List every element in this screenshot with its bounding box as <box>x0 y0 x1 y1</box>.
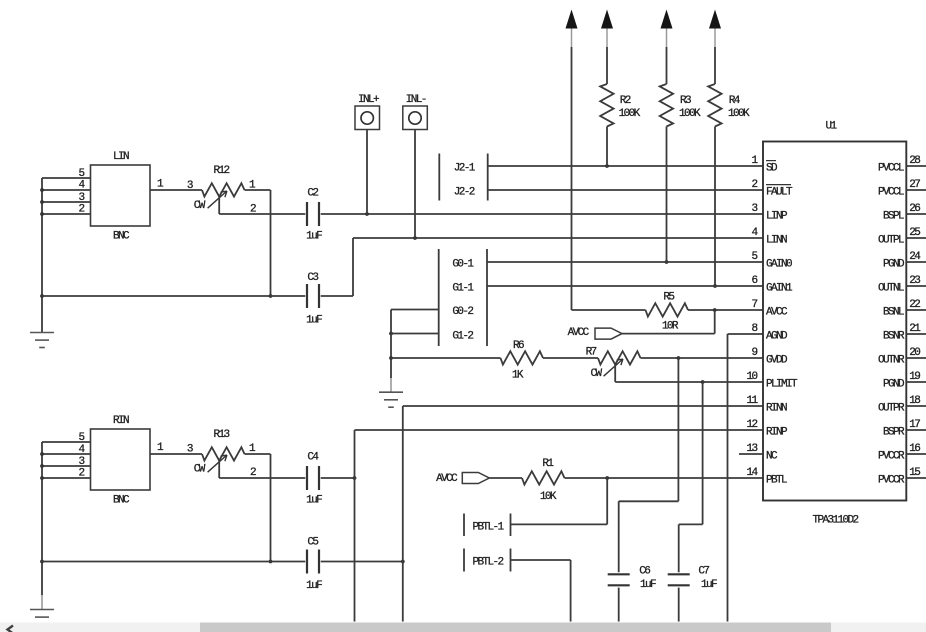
svg-text:R3: R3 <box>680 95 691 107</box>
scrollbar thumb <box>200 623 831 632</box>
svg-text:INL+: INL+ <box>358 94 379 106</box>
pin 7 AVCC <box>751 299 788 318</box>
pin 15 PVCCR <box>878 467 926 486</box>
potentiometer R12 <box>187 165 256 216</box>
svg-text:10R: 10R <box>662 321 679 333</box>
svg-text:BSNL: BSNL <box>883 307 904 319</box>
svg-text:R12: R12 <box>213 165 229 177</box>
resistor R2 100K <box>600 47 640 127</box>
power tag AVCC to pin7 <box>568 310 715 339</box>
svg-text:PBTL: PBTL <box>766 475 787 487</box>
wire R12 terminal1 to C3 row <box>245 190 273 298</box>
wire C7 to bottom edge <box>678 588 680 622</box>
svg-text:J2-2: J2-2 <box>454 187 475 199</box>
wire J2-1 to IC pin 1 SD <box>488 164 763 168</box>
pin 13 NC <box>739 443 778 462</box>
capacitor C4 <box>306 452 322 507</box>
svg-text:100K: 100K <box>728 108 750 120</box>
svg-text:AVCC: AVCC <box>436 473 458 485</box>
test point INL+ <box>355 94 380 130</box>
svg-text:12: 12 <box>746 419 757 431</box>
svg-text:R5: R5 <box>663 292 674 304</box>
pin 4 LINN <box>751 227 787 246</box>
wire GVDD net to C6 <box>619 358 679 572</box>
pin 17 BSPR <box>883 419 926 438</box>
svg-text:OUTPL: OUTPL <box>878 235 904 247</box>
connector G (gain select) <box>439 249 487 346</box>
wire PBTL-2 to bottom edge <box>511 560 571 622</box>
wire INL+ to LINP net <box>366 130 368 215</box>
svg-text:PVCCR: PVCCR <box>878 451 905 463</box>
svg-text:BSNR: BSNR <box>883 331 905 343</box>
connector J2 <box>439 154 487 201</box>
pin 27 PVCCL <box>878 179 926 198</box>
svg-text:PVCCL: PVCCL <box>878 187 904 199</box>
resistor R3 100K <box>660 47 701 127</box>
svg-text:BSPL: BSPL <box>883 211 904 223</box>
svg-text:1uF: 1uF <box>306 314 322 326</box>
pin 23 OUTNL <box>878 275 926 294</box>
wire LIN shield bus <box>40 178 44 332</box>
svg-text:C5: C5 <box>307 537 318 549</box>
svg-text:10K: 10K <box>540 491 557 503</box>
svg-text:OUTPR: OUTPR <box>878 403 905 415</box>
power port VCC arrow 2 <box>601 10 613 48</box>
wire R13 wiper to C4 <box>219 477 305 479</box>
svg-text:OUTNR: OUTNR <box>878 355 905 367</box>
wire C3 to IC pin 4 LINN <box>321 236 763 296</box>
ground RIN shield <box>30 610 54 625</box>
svg-text:PLIMIT: PLIMIT <box>766 379 798 391</box>
pin 11 RINN <box>746 395 787 414</box>
pin 25 OUTPL <box>878 227 926 246</box>
power tag AVCC to R1 <box>436 473 522 485</box>
wire RINN net to IC pin 11 <box>403 406 763 622</box>
svg-text:10: 10 <box>746 371 757 383</box>
svg-text:R2: R2 <box>620 95 631 107</box>
svg-text:TPA3110D2: TPA3110D2 <box>812 515 858 527</box>
pin 14 PBTL <box>746 467 787 486</box>
connector RIN (BNC jack) <box>78 415 150 507</box>
wire PLIMIT net to C7 <box>679 382 703 572</box>
capacitor C7 1uF <box>668 566 717 592</box>
wire VCC arrow1 to R5 row <box>571 47 573 310</box>
pin 5 GAIN0 <box>751 251 792 270</box>
power port VCC arrow 1 <box>566 10 578 48</box>
svg-text:PGND: PGND <box>883 379 905 391</box>
connector PBTL-2 <box>464 549 511 572</box>
wire shield bus to C3 <box>42 295 305 297</box>
ground bus near G header <box>389 310 393 393</box>
pin 10 PLIMIT <box>746 371 798 390</box>
svg-text:FAULT: FAULT <box>766 187 793 199</box>
wire R7 wiper to IC pin 10 PLIMIT <box>615 365 763 384</box>
svg-text:BNC: BNC <box>113 231 130 243</box>
test point INL- <box>403 94 428 130</box>
resistor R6 1K <box>391 340 543 381</box>
wire RIN pin stubs to shield bus <box>42 442 91 478</box>
potentiometer R13 <box>187 429 256 479</box>
svg-text:1uF: 1uF <box>306 495 322 507</box>
pin 1 SD <box>751 155 778 174</box>
svg-text:C2: C2 <box>307 188 318 200</box>
svg-text:100K: 100K <box>679 108 701 120</box>
wire R1 to IC pin 14 PBTL <box>565 476 764 480</box>
wire G1-2 to ground bus <box>389 332 439 336</box>
wire R12 wiper to C2 (LINP net) <box>219 213 305 215</box>
svg-text:1uF: 1uF <box>701 579 717 591</box>
wire C4 to RINP net <box>321 476 357 480</box>
svg-text:PGND: PGND <box>883 259 905 271</box>
pin 28 PVCCL <box>878 155 926 174</box>
svg-text:R6: R6 <box>513 340 524 352</box>
wire INL- to LINN net <box>414 130 416 239</box>
wire R7 to IC pin 9 GVDD <box>641 356 764 360</box>
wire C5 to RINN net <box>321 560 405 564</box>
pin 20 OUTNR <box>878 347 926 366</box>
wire RIN shield bus <box>40 442 44 610</box>
svg-text:PBTL-2: PBTL-2 <box>472 557 503 569</box>
svg-text:PBTL-1: PBTL-1 <box>472 521 504 533</box>
wire C2 to IC pin 3 LINP <box>321 212 763 216</box>
connector LIN (BNC jack) <box>78 151 150 243</box>
ground LIN shield <box>30 333 54 348</box>
op-amp IC U1 TPA3110D2 <box>739 121 926 527</box>
wire G1-1 to IC pin 6 GAIN1 <box>487 285 763 287</box>
svg-text:R7: R7 <box>586 347 597 359</box>
wire G0-2 to ground bus <box>391 309 439 311</box>
svg-text:1uF: 1uF <box>640 579 656 591</box>
resistor R4 100K <box>708 47 750 127</box>
svg-text:LIN: LIN <box>113 151 129 163</box>
capacitor C6 1uF <box>608 566 656 592</box>
wire J2-2 to IC pin 2 FAULT <box>488 189 763 191</box>
svg-text:J2-1: J2-1 <box>454 163 476 175</box>
wire R2 to SD net <box>606 127 608 167</box>
pin 12 RINP <box>746 419 788 438</box>
svg-text:G1-1: G1-1 <box>452 283 474 295</box>
svg-text:BNC: BNC <box>113 495 130 507</box>
wire shield bus to C5 <box>42 561 305 563</box>
wire C6 to bottom edge <box>618 588 620 622</box>
scrollbar left arrow <box>8 626 14 632</box>
svg-text:GAIN1: GAIN1 <box>766 283 793 295</box>
pin 24 PGND <box>883 251 926 270</box>
pin 9 GVDD <box>751 347 788 366</box>
wire IC pin 8 AGND down to bottom <box>728 334 764 622</box>
power port VCC arrow 4 <box>709 10 721 48</box>
resistor R5 10R <box>572 292 764 333</box>
svg-text:1uF: 1uF <box>306 231 322 243</box>
svg-text:C7: C7 <box>698 566 709 578</box>
pin 2 FAULT <box>751 179 793 198</box>
svg-text:C3: C3 <box>307 272 318 284</box>
svg-text:GAIN0: GAIN0 <box>766 259 792 271</box>
capacitor C5 <box>306 537 322 592</box>
connector PBTL-1 <box>464 514 511 537</box>
svg-text:LINP: LINP <box>766 211 788 223</box>
svg-text:G0-2: G0-2 <box>452 306 473 318</box>
wire RINP net to IC pin 12 <box>355 430 764 622</box>
svg-text:PVCCL: PVCCL <box>878 163 904 175</box>
pin 21 BSNR <box>883 323 926 342</box>
pin 3 LINP <box>751 203 788 222</box>
svg-text:RINN: RINN <box>766 403 787 415</box>
svg-text:C6: C6 <box>639 566 650 578</box>
svg-text:RINP: RINP <box>766 427 788 439</box>
wire R4 to GAIN1 net <box>713 127 717 288</box>
pin 26 BSPL <box>883 203 926 222</box>
wire LIN pin stubs to shield bus <box>42 178 91 214</box>
svg-text:INL-: INL- <box>406 94 426 106</box>
capacitor C2 <box>306 188 322 243</box>
svg-text:R13: R13 <box>213 429 229 441</box>
pin 19 PGND <box>883 371 926 390</box>
wire RIN pin1 to R13 <box>150 442 202 454</box>
wire PBTL-1 to PBTL net <box>511 478 608 524</box>
potentiometer R7 <box>543 347 641 381</box>
power port VCC arrow 3 <box>661 10 673 48</box>
pin 16 PVCCR <box>878 443 926 462</box>
svg-text:RIN: RIN <box>113 415 129 427</box>
svg-text:G1-2: G1-2 <box>452 330 473 342</box>
svg-text:LINN: LINN <box>766 235 787 247</box>
svg-text:BSPR: BSPR <box>883 427 905 439</box>
svg-text:AVCC: AVCC <box>766 307 788 319</box>
svg-text:AVCC: AVCC <box>568 327 590 339</box>
capacitor C3 <box>306 272 322 327</box>
pin 6 GAIN1 <box>751 275 793 294</box>
svg-text:100K: 100K <box>619 108 641 120</box>
svg-text:G0-1: G0-1 <box>452 259 474 271</box>
wire G0-1 to IC pin 5 GAIN0 <box>487 261 763 263</box>
svg-text:PVCCR: PVCCR <box>878 475 905 487</box>
wire LIN pin1 to R12 <box>150 179 202 191</box>
resistor R1 10K <box>522 458 565 503</box>
pin 22 BSNL <box>883 299 926 318</box>
scrollbar track <box>0 623 926 632</box>
wire R13 terminal1 to C5 row <box>245 454 273 563</box>
pin 18 OUTPR <box>878 395 926 414</box>
wire R3 to GAIN0 net <box>665 127 669 264</box>
svg-text:1uF: 1uF <box>306 580 322 592</box>
pin 8 AGND <box>751 323 788 342</box>
svg-text:OUTNL: OUTNL <box>878 283 904 295</box>
ground symbol middle <box>379 392 403 407</box>
svg-text:AGND: AGND <box>766 331 788 343</box>
svg-text:GVDD: GVDD <box>766 355 788 367</box>
